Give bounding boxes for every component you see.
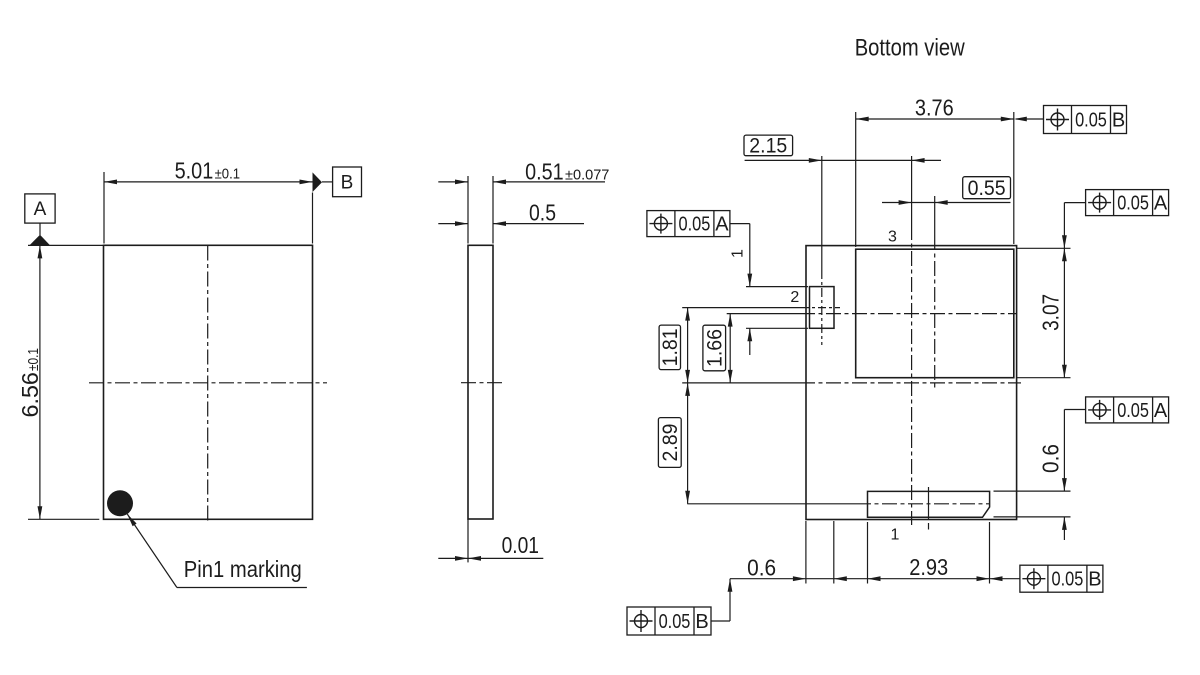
dimension 3.07 extension lines xyxy=(1017,248,1071,377)
svg-text:3.07: 3.07 xyxy=(1037,294,1063,331)
svg-text:0.05: 0.05 xyxy=(659,611,691,633)
fcf A pad1 leader xyxy=(1064,409,1085,411)
svg-text:0.6: 0.6 xyxy=(1037,444,1063,473)
dimension 2.89 box xyxy=(658,418,681,468)
side-view extension lines xyxy=(468,176,493,244)
svg-text:±0.1: ±0.1 xyxy=(25,348,42,371)
dimension 1.81 text xyxy=(659,328,682,366)
top-view horizontal centerline xyxy=(89,382,327,384)
feature control frame 0.05 B (bottom left) xyxy=(627,607,711,635)
svg-text:1: 1 xyxy=(891,527,900,544)
dimension 0.6 line (pad2 offset) xyxy=(730,576,868,581)
package vertical centerline xyxy=(911,156,913,525)
side-view horizontal centerline xyxy=(461,382,503,384)
fcf A pad3 leader xyxy=(1062,203,1086,249)
feature control frame 0.05 B (pad1 right) xyxy=(1020,565,1103,592)
dimension 6.56 bottom extension xyxy=(28,518,99,520)
svg-text:2.89: 2.89 xyxy=(659,424,682,462)
dimension 2.89 line xyxy=(685,383,690,504)
dimension 2.93 text xyxy=(909,554,948,580)
dimension 0.6 text (pad2 offset) xyxy=(747,555,776,581)
pad3 vertical centerline xyxy=(934,196,936,390)
fcf B top leader xyxy=(1014,117,1044,122)
dimension 0.6 text (pad1 height) xyxy=(1037,444,1063,473)
fcf A pad2 leader xyxy=(730,223,750,225)
feature control frame 0.05 B (top) xyxy=(1044,106,1127,134)
dimension 0.6 extension lines (pad1) xyxy=(994,491,1071,517)
svg-text:0.51: 0.51 xyxy=(525,159,564,185)
datum A letter xyxy=(34,199,47,220)
pad1 horizontal centerline xyxy=(687,503,990,505)
dimension 3.07 text xyxy=(1037,294,1063,331)
svg-text:1.66: 1.66 xyxy=(703,329,726,367)
svg-text:A: A xyxy=(1154,193,1168,215)
top-view vertical centerline xyxy=(207,246,209,524)
dimension 1.81 line xyxy=(685,308,690,383)
svg-text:2: 2 xyxy=(790,289,799,306)
dimension 0.6 line (pad1 height) xyxy=(1062,410,1067,541)
dimension 0.55 box xyxy=(963,177,1011,199)
dimension 0.55 line xyxy=(882,200,1011,205)
dimension 2.15 box xyxy=(744,135,793,156)
pin1 marking leader xyxy=(127,514,307,587)
package body outline (side view) xyxy=(468,245,493,519)
pad3 horizontal centerline xyxy=(727,313,1017,315)
dimension 1.66 text xyxy=(703,329,726,367)
svg-text:1: 1 xyxy=(730,249,747,258)
svg-text:A: A xyxy=(34,199,47,220)
dimension 3.76 line xyxy=(856,117,1014,122)
svg-text:0.5: 0.5 xyxy=(529,200,556,226)
svg-text:A: A xyxy=(1154,400,1168,422)
title Bottom view xyxy=(855,34,966,61)
pad2 vertical centerline xyxy=(821,156,823,345)
pad 2 xyxy=(810,287,835,329)
svg-text:0.6: 0.6 xyxy=(747,555,776,581)
dimension 0.55 text xyxy=(968,177,1006,200)
label Pin1 marking xyxy=(184,556,302,582)
dimension 2.15 line xyxy=(745,158,941,163)
dimension 0.51 text xyxy=(525,159,609,185)
datum B triangle xyxy=(313,172,333,192)
svg-text:Pin1 marking: Pin1 marking xyxy=(184,556,302,582)
dimension 0.5 line xyxy=(438,221,584,226)
svg-text:B: B xyxy=(341,173,354,194)
svg-text:B: B xyxy=(1088,569,1101,591)
feature control frame 0.05 A (pad2) xyxy=(647,211,730,237)
dimension 1.66 box xyxy=(703,325,726,371)
pin label 2 xyxy=(790,289,799,306)
svg-text:B: B xyxy=(1112,109,1125,131)
dimension 3.07 line xyxy=(1062,248,1067,377)
package horizontal centerline xyxy=(682,382,1021,384)
datum A box xyxy=(25,194,55,223)
fcf B bottom-left leader xyxy=(711,579,732,621)
svg-text:0.05: 0.05 xyxy=(1117,400,1149,422)
pad2 edge extension lines xyxy=(746,287,808,329)
dimension 0.01 text xyxy=(502,532,539,558)
package outline (bottom view) xyxy=(806,246,1017,520)
svg-text:Bottom view: Bottom view xyxy=(855,34,966,61)
svg-text:2.15: 2.15 xyxy=(749,135,787,158)
dimension 5.01 line xyxy=(104,180,313,185)
svg-text:1.81: 1.81 xyxy=(659,328,682,366)
dimension 2.15 text xyxy=(749,135,787,158)
dimension 1.81 box xyxy=(659,325,680,370)
svg-text:0.05: 0.05 xyxy=(1052,569,1084,591)
svg-text:±0.1: ±0.1 xyxy=(215,166,240,183)
fcf B pad1 leader xyxy=(990,576,1020,581)
pad1 vertical centerline xyxy=(928,487,930,530)
pad2 horizontal centerline xyxy=(682,307,840,309)
pin label 3 xyxy=(888,229,897,246)
dimension 2.93 line xyxy=(868,576,990,581)
svg-text:6.56: 6.56 xyxy=(17,372,43,417)
dimension 5.01 extension lines xyxy=(104,172,313,244)
dimension 0.5 text xyxy=(529,200,556,226)
dimension 3.76 extension lines xyxy=(856,112,1014,247)
datum B letter xyxy=(341,173,354,194)
dimension 1 line xyxy=(747,224,752,355)
pin1 marking dot xyxy=(107,490,133,516)
bottom extension lines xyxy=(806,521,990,584)
svg-text:0.01: 0.01 xyxy=(502,532,539,558)
svg-text:3.76: 3.76 xyxy=(915,95,954,121)
feature control frame 0.05 A (pad1) xyxy=(1086,397,1169,423)
dimension 6.56 text xyxy=(17,348,43,418)
pad 1 xyxy=(868,491,990,517)
svg-text:0.55: 0.55 xyxy=(968,177,1006,200)
dimension 0.51 line xyxy=(438,180,605,185)
pad 3 (exposed pad) xyxy=(856,249,1014,378)
svg-text:5.01: 5.01 xyxy=(175,158,214,184)
svg-text:A: A xyxy=(715,214,729,236)
dimension 0.01 extension line xyxy=(467,519,469,562)
svg-text:B: B xyxy=(695,611,708,633)
svg-text:3: 3 xyxy=(888,229,897,246)
svg-text:0.05: 0.05 xyxy=(679,214,711,236)
package body outline (top view) xyxy=(104,245,313,519)
dimension 2.89 text xyxy=(659,424,682,462)
datum B box xyxy=(333,167,362,197)
dimension 1.66 line xyxy=(728,314,733,383)
dimension 6.56 line xyxy=(38,245,43,519)
dimension 5.01 text xyxy=(175,158,240,184)
dimension 3.76 text xyxy=(915,95,954,121)
dimension 1 text xyxy=(730,249,747,258)
svg-text:±0.077: ±0.077 xyxy=(565,167,609,184)
svg-text:0.05: 0.05 xyxy=(1075,109,1107,131)
pin label 1 xyxy=(891,527,900,544)
datum A baseline xyxy=(28,244,104,246)
datum A triangle xyxy=(29,223,50,245)
svg-text:2.93: 2.93 xyxy=(909,554,948,580)
svg-text:0.05: 0.05 xyxy=(1117,193,1149,215)
feature control frame 0.05 A (pad3) xyxy=(1086,190,1169,216)
dimension 0.01 line xyxy=(438,556,543,561)
